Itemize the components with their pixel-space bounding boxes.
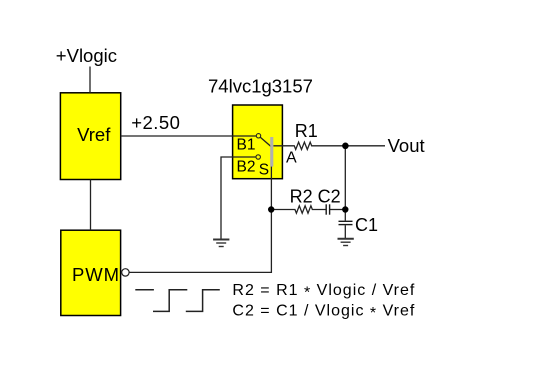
svg-text:+Vlogic: +Vlogic xyxy=(56,45,117,66)
svg-text:A: A xyxy=(286,150,297,167)
svg-text:C2 = C1 / Vlogic * Vref: C2 = C1 / Vlogic * Vref xyxy=(232,303,415,323)
svg-text:Vout: Vout xyxy=(388,135,425,156)
svg-text:B1: B1 xyxy=(237,137,256,154)
svg-text:Vref: Vref xyxy=(77,124,111,145)
svg-text:74lvc1g3157: 74lvc1g3157 xyxy=(208,76,313,97)
svg-text:R2 C2: R2 C2 xyxy=(290,186,341,206)
svg-text:S: S xyxy=(259,161,269,178)
svg-text:PWM: PWM xyxy=(72,264,120,285)
svg-text:R2 = R1 * Vlogic / Vref: R2 = R1 * Vlogic / Vref xyxy=(232,282,415,302)
svg-text:R1: R1 xyxy=(295,121,318,141)
svg-text:B2: B2 xyxy=(237,159,256,176)
svg-text:+2.50: +2.50 xyxy=(131,112,180,133)
svg-text:C1: C1 xyxy=(355,215,378,235)
